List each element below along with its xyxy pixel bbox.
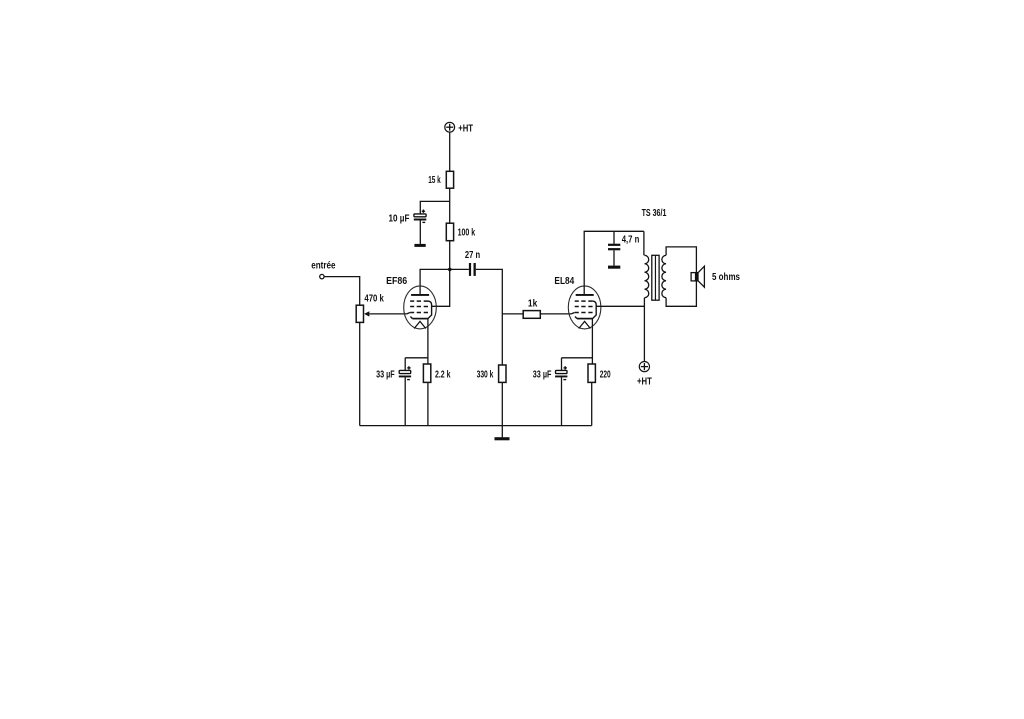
svg-text:330 k: 330 k <box>477 368 494 380</box>
wire node to EF86 plate <box>420 269 450 294</box>
ground bar (4.7n) <box>608 266 620 269</box>
cathode <box>412 318 428 320</box>
+HT terminal top <box>445 122 455 132</box>
input terminal entree <box>320 274 324 278</box>
wire 33uF to rail <box>404 377 406 425</box>
resistor 15k <box>446 171 453 188</box>
svg-text:33 µF: 33 µF <box>533 368 552 380</box>
resistor 220 <box>588 364 595 382</box>
grid g2 dashes <box>575 306 593 308</box>
wire through speaker <box>695 273 697 281</box>
wire down to 33uF <box>561 358 563 371</box>
wire 1k to EL84 grid <box>540 313 571 315</box>
grid g3 dashes <box>410 300 428 302</box>
svg-text:TS 36/1: TS 36/1 <box>642 207 667 219</box>
grid side bracket <box>593 301 597 319</box>
svg-text:470 k: 470 k <box>364 293 384 305</box>
wire branch to 10uF <box>420 200 449 202</box>
svg-text:entrée: entrée <box>311 260 335 272</box>
capacitor 33uF (EF86) <box>399 366 411 379</box>
grid g2 dashes <box>410 306 428 308</box>
svg-text:4,7 n: 4,7 n <box>622 234 640 246</box>
wire to 1k <box>502 313 523 315</box>
wire cathode branch to 33uF <box>405 357 428 359</box>
wire primary bottom to +HT <box>643 298 645 362</box>
wire 27n to corner <box>476 269 503 365</box>
wire EF86 screen to node column <box>431 269 450 306</box>
svg-text:+HT: +HT <box>637 376 652 388</box>
svg-text:220: 220 <box>600 368 611 380</box>
wire cathode branch to 33uF <box>562 357 593 359</box>
wire 100k to plate node <box>449 241 451 270</box>
wire secondary bottom to speaker <box>666 281 696 307</box>
grid g1 dashes <box>410 312 428 314</box>
envelope <box>568 286 601 329</box>
heater <box>579 321 591 328</box>
wire EL84 plate up and over <box>584 231 644 294</box>
resistor 1k <box>523 311 540 319</box>
wire EL84 screen to +HT column <box>596 305 645 307</box>
g1 lead jog <box>407 313 410 314</box>
ground bar (10uF) <box>414 244 425 247</box>
wire EL84 cathode down <box>591 319 593 364</box>
wire entree to pot <box>324 277 360 306</box>
grid g3 dashes <box>575 300 593 302</box>
anode bar <box>411 294 429 296</box>
wire down to 33uF <box>404 358 406 371</box>
heater <box>414 321 426 328</box>
ground rail <box>360 425 592 427</box>
svg-text:EF86: EF86 <box>386 275 407 287</box>
transformer core <box>652 255 659 300</box>
speaker 5 ohms <box>691 266 704 287</box>
capacitor 27n <box>469 263 476 276</box>
capacitor 4.7n <box>608 244 620 251</box>
svg-text:+HT: +HT <box>458 122 473 134</box>
svg-text:100 k: 100 k <box>458 227 476 239</box>
cathode <box>577 318 593 320</box>
grid g1 dashes <box>575 312 593 314</box>
svg-text:5 ohms: 5 ohms <box>712 271 740 283</box>
wire EF86 cathode down <box>427 319 429 364</box>
transformer secondary winding <box>662 255 666 297</box>
wire node to 27n <box>450 268 469 270</box>
wire 330k to ground <box>501 382 503 437</box>
wire 33uF to rail <box>561 377 563 425</box>
wire 15k to 100k <box>449 188 451 223</box>
wire secondary top to speaker <box>666 247 696 273</box>
transformer primary lead <box>643 231 645 255</box>
wire 2.2k to rail <box>427 382 429 425</box>
resistor 330k <box>499 365 506 382</box>
node plate junction dot <box>448 268 452 272</box>
svg-text:15 k: 15 k <box>428 174 441 186</box>
capacitor 10uF electrolytic <box>414 210 427 223</box>
anode bar <box>576 294 594 296</box>
svg-text:10 µF: 10 µF <box>389 212 410 224</box>
wire 10uF to ground <box>419 220 421 244</box>
pot wiper arrow <box>364 311 407 316</box>
tube EL84 <box>568 286 601 329</box>
wire 4.7n to ground <box>613 250 615 265</box>
wire +HT to R 15k <box>449 132 451 171</box>
transformer primary winding <box>645 255 649 297</box>
resistor 2.2k <box>423 364 430 382</box>
g1 lead jog <box>571 313 574 314</box>
wire pot to ground rail <box>359 322 361 425</box>
wire down to 10uF top <box>419 201 421 214</box>
svg-text:1k: 1k <box>528 297 538 309</box>
+HT terminal bottom <box>639 362 649 372</box>
svg-text:2.2 k: 2.2 k <box>435 368 451 380</box>
svg-text:27 n: 27 n <box>465 249 480 261</box>
potentiometer 470k <box>356 305 363 322</box>
tube EF86 <box>404 286 437 329</box>
ground bar (main) <box>495 437 510 440</box>
resistor 100k <box>446 223 453 241</box>
wire 220 to rail <box>591 382 593 425</box>
grid side bracket <box>428 301 432 319</box>
svg-text:EL84: EL84 <box>554 275 574 287</box>
wire 4.7n top lead <box>613 231 615 244</box>
svg-text:33 µF: 33 µF <box>376 368 395 380</box>
capacitor 33uF (EL84) <box>555 366 567 379</box>
envelope <box>404 286 437 329</box>
